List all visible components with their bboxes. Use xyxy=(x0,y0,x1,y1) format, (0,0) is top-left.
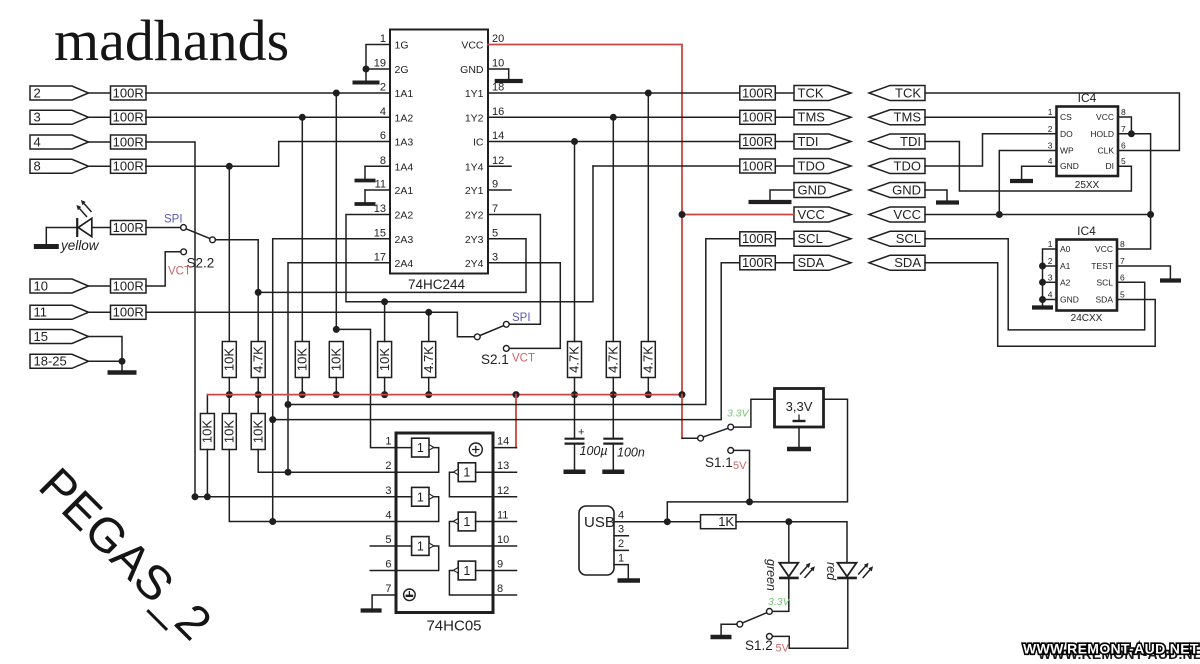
wire U2 pin 12 stub xyxy=(493,496,517,498)
svg-text:TMS: TMS xyxy=(894,110,922,125)
wire 1Y2 to TMS resistor xyxy=(488,116,740,118)
svg-text:14: 14 xyxy=(497,436,509,448)
svg-text:74HC244: 74HC244 xyxy=(408,277,466,292)
svg-text:4: 4 xyxy=(1048,290,1053,300)
wire U2 pin6 stub xyxy=(370,570,396,572)
svg-text:S1.2: S1.2 xyxy=(745,638,773,653)
capacitor C1 100u xyxy=(574,395,576,438)
svg-text:GND: GND xyxy=(1060,161,1079,171)
svg-text:9: 9 xyxy=(492,179,498,191)
wire 25XX GND stub xyxy=(1022,166,1057,179)
svg-text:5: 5 xyxy=(1120,290,1125,300)
wire resistor to flag xyxy=(775,92,794,94)
svg-text:10: 10 xyxy=(34,278,48,293)
svg-text:A1: A1 xyxy=(1060,261,1071,271)
wire 1A2 row (from pin3 flag) xyxy=(146,116,390,118)
svg-text:100R: 100R xyxy=(113,220,144,235)
net flag TMS (in) xyxy=(869,110,925,125)
svg-text:1Y4: 1Y4 xyxy=(465,161,484,173)
wire flag to resistor xyxy=(89,116,111,118)
wire GND pin10 stub xyxy=(488,68,509,70)
svg-text:1A3: 1A3 xyxy=(395,137,414,149)
svg-text:SCL: SCL xyxy=(798,231,823,246)
wire pullup bus (flag8 net) xyxy=(228,166,230,341)
junction WP tap xyxy=(996,211,1003,218)
resistor 4.7K pull (TCK net) xyxy=(641,342,655,378)
ground (GND flag left) xyxy=(749,200,792,204)
wire green LED to S1.2 3.3V contact xyxy=(772,578,789,612)
net flag SCL (in) xyxy=(869,231,925,246)
wire TMS to 25XX CS xyxy=(925,116,1057,118)
U2 ground symbol xyxy=(404,589,416,601)
svg-text:3: 3 xyxy=(1048,272,1053,282)
junction VCC/HOLD xyxy=(1128,130,1135,137)
connector pin flag 15 xyxy=(30,330,89,344)
svg-text:madhands: madhands xyxy=(54,8,289,73)
ground (1A4) xyxy=(364,166,366,180)
IC IC4 24CXX body xyxy=(1057,240,1118,311)
ground (C2) xyxy=(602,470,624,475)
svg-text:1A2: 1A2 xyxy=(395,112,414,124)
svg-text:SDA: SDA xyxy=(1096,295,1114,305)
wire VCC to S1.1 (red) xyxy=(681,395,683,439)
wire SCL to 24CXX SCL xyxy=(925,239,1145,330)
net flag TDI (in) xyxy=(869,134,925,149)
svg-text:2: 2 xyxy=(618,538,624,550)
resistor 4.7K pull (flag11 net) xyxy=(422,342,436,378)
junction on VCC rail xyxy=(610,391,617,398)
svg-text:1: 1 xyxy=(463,466,470,480)
ground (pins 15,18-25) xyxy=(121,361,123,372)
svg-text:TDO: TDO xyxy=(798,158,825,173)
wire 1Y4 stub xyxy=(488,165,511,167)
node junction S2.2/2Y3 xyxy=(255,289,262,296)
svg-text:SPI: SPI xyxy=(164,214,183,226)
svg-text:8: 8 xyxy=(497,583,503,595)
wire U2 pin 13 stub xyxy=(493,471,517,473)
svg-text:6: 6 xyxy=(380,130,386,142)
wire pin4-flag down bus xyxy=(146,142,195,497)
svg-text:1: 1 xyxy=(463,515,470,529)
svg-text:+: + xyxy=(578,427,584,439)
svg-text:2Y1: 2Y1 xyxy=(465,185,484,197)
resistor 10K pull (flag2 net) xyxy=(329,342,343,378)
svg-text:100µ: 100µ xyxy=(580,444,608,458)
wire 1Y1 to TCK resistor xyxy=(488,92,740,94)
wire 1A1 row (from pin2 flag) xyxy=(146,92,390,94)
wire 25XX VCC tie to HOLD xyxy=(1118,117,1131,134)
svg-text:DI: DI xyxy=(1106,161,1115,171)
ground (24CXX) xyxy=(1032,305,1053,309)
svg-text:10K: 10K xyxy=(295,348,310,371)
svg-text:100R: 100R xyxy=(742,85,773,100)
svg-text:2Y4: 2Y4 xyxy=(465,258,484,270)
junction xyxy=(119,358,126,365)
svg-text:3.3V: 3.3V xyxy=(727,408,750,420)
svg-text:10K: 10K xyxy=(222,420,237,443)
resistor 100R (pin 3) xyxy=(111,110,147,124)
switch S1.2 common xyxy=(737,621,743,627)
regulator 3.3V body xyxy=(775,389,824,428)
wire 1A4 ground stub xyxy=(365,165,390,167)
U2 power symbol xyxy=(469,443,482,456)
junction SCL line xyxy=(285,401,292,408)
junction on VCC rail xyxy=(645,391,652,398)
svg-text:100R: 100R xyxy=(113,85,144,100)
wire 24CXX address pins to ground xyxy=(1043,249,1057,305)
svg-text:5: 5 xyxy=(1121,156,1126,166)
svg-text:100R: 100R xyxy=(742,255,773,270)
switch S2.1 VCT contact xyxy=(503,346,509,352)
svg-text:11: 11 xyxy=(375,179,386,191)
svg-text:10K: 10K xyxy=(377,348,392,371)
svg-text:4: 4 xyxy=(1048,156,1053,166)
svg-text:4: 4 xyxy=(385,510,391,522)
svg-text:1: 1 xyxy=(417,540,424,554)
connector pin flag 8 xyxy=(30,159,89,173)
connector pin flag 2 xyxy=(30,86,89,100)
svg-text:13: 13 xyxy=(374,203,386,215)
svg-text:1: 1 xyxy=(463,564,470,578)
svg-text:GND: GND xyxy=(892,182,921,197)
junction on VCC rail xyxy=(333,391,340,398)
resistor 100R (TDI) xyxy=(740,135,776,149)
wire S2.2 common down xyxy=(215,240,258,342)
wire IC pin14 to TDI resistor xyxy=(488,141,740,143)
svg-text:IC4: IC4 xyxy=(1077,224,1096,238)
svg-text:100R: 100R xyxy=(113,134,144,149)
svg-text:4.7K: 4.7K xyxy=(421,346,436,373)
resistor 100R (pin 4) xyxy=(111,135,147,149)
junction HC05 pin4 row xyxy=(269,518,276,525)
net flag TDO (in) xyxy=(869,159,925,174)
switch S1.1 common xyxy=(698,435,704,441)
junction flag4/HC05 pin3 xyxy=(192,493,199,500)
resistor 100R (TDO) xyxy=(740,159,776,173)
svg-text:3.3V: 3.3V xyxy=(768,596,791,608)
wire xyxy=(89,285,111,287)
ground (1G,2G) xyxy=(365,69,367,83)
wire flag3 bus down xyxy=(301,117,303,341)
svg-text:A2: A2 xyxy=(1060,277,1071,287)
svg-text:7: 7 xyxy=(1121,124,1126,134)
svg-text:4.7K: 4.7K xyxy=(641,346,656,373)
switch S1.1 5V contact xyxy=(728,448,734,454)
svg-text:25XX: 25XX xyxy=(1075,180,1100,191)
svg-text:10K: 10K xyxy=(329,348,344,371)
junction flag8/pullup xyxy=(226,163,233,170)
svg-text:74HC05: 74HC05 xyxy=(426,618,481,635)
wire S1.2 common to ground xyxy=(721,624,737,635)
IC U2 74HC05 body xyxy=(396,433,493,613)
svg-text:3: 3 xyxy=(1048,141,1053,151)
wire 2A4 down bus xyxy=(288,263,390,472)
resistor 4.7K pull (S2.2 net) xyxy=(251,342,265,378)
IC U1 74HC244 body xyxy=(390,30,488,274)
wire LED to resistor xyxy=(92,227,111,229)
svg-text:1: 1 xyxy=(1048,107,1053,117)
svg-text:3: 3 xyxy=(34,110,41,125)
wire flag2 bus down with jog to HC05 pin1 xyxy=(335,93,337,329)
svg-text:2A1: 2A1 xyxy=(395,185,414,197)
svg-text:10: 10 xyxy=(492,58,504,70)
svg-text:10: 10 xyxy=(497,534,509,546)
svg-text:100R: 100R xyxy=(113,305,144,320)
svg-text:4.7K: 4.7K xyxy=(567,346,582,373)
inverter gate (input row 521.5, right) xyxy=(449,512,493,546)
wire pin11-flag row (line C) to S2.1 common xyxy=(146,312,474,337)
wire pin18-25 xyxy=(89,360,123,362)
LED D2 green xyxy=(779,563,815,578)
junction TMS pullup xyxy=(610,114,617,121)
net flag TCK (in) xyxy=(869,86,925,101)
svg-text:11: 11 xyxy=(497,510,508,522)
svg-text:VCT: VCT xyxy=(168,266,191,278)
switch S2.1 lever xyxy=(480,326,504,336)
svg-text:2: 2 xyxy=(34,85,41,100)
wire 25XX HOLD to VCC net xyxy=(1117,134,1151,249)
wire pullup vertical (TCK net) xyxy=(647,93,649,342)
VCC rail (red) xyxy=(207,394,682,396)
wire SDA link (2A3 net to SDA resistor) xyxy=(273,263,740,420)
wire resistor to flag xyxy=(775,116,794,118)
wire U2 pin7 to ground xyxy=(372,595,396,609)
svg-text:IC4: IC4 xyxy=(1078,91,1097,105)
inverter gate (input row 546) xyxy=(396,537,439,571)
wire ground to LED xyxy=(46,227,77,229)
wire resistor to VCC rail xyxy=(612,378,614,395)
ground (regulator) xyxy=(798,427,800,447)
wire VCT resistor to S2.2 xyxy=(146,252,181,286)
switch S1.1 3.3V contact xyxy=(728,424,734,430)
svg-text:2Y3: 2Y3 xyxy=(465,234,484,246)
svg-text:S2.1: S2.1 xyxy=(481,352,509,367)
junction jog/pullup xyxy=(333,326,340,333)
junction 1G/2G xyxy=(363,66,370,73)
wire pulldown stub (TDO net) xyxy=(384,302,386,342)
wire 2Y3 to S2.2 net (line A) xyxy=(258,239,526,293)
resistor 10K (HC05 pin2 net) xyxy=(251,414,265,450)
svg-text:9: 9 xyxy=(497,559,503,571)
switch S1.2 5V contact xyxy=(767,634,773,640)
svg-text:TEST: TEST xyxy=(1091,261,1113,271)
svg-text:A0: A0 xyxy=(1060,244,1071,254)
connector pin flag 18-25 xyxy=(30,354,89,368)
wire VCC pin20 (red) xyxy=(488,45,682,395)
wire flag to resistor xyxy=(89,92,111,94)
ground (U2 pin7) xyxy=(361,608,382,612)
junction VCC rail / branch to HC05 pin14 xyxy=(513,391,520,398)
svg-text:16: 16 xyxy=(492,106,504,118)
resistor 100R (pin 11) xyxy=(111,305,147,319)
svg-text:1: 1 xyxy=(618,553,624,565)
resistor 4.7K pull (TMS net) xyxy=(606,342,620,378)
wire 24CXX TEST to ground xyxy=(1117,266,1170,279)
junction 1A1/pullup xyxy=(333,90,340,97)
wire resistor to HC05 pin3 row xyxy=(206,450,208,497)
resistor 100R (SDA) xyxy=(740,256,776,270)
svg-text:8: 8 xyxy=(1121,107,1126,117)
svg-text:18-25: 18-25 xyxy=(34,354,67,369)
svg-text:2: 2 xyxy=(1048,124,1053,134)
connector pin flag 10 xyxy=(30,279,89,293)
svg-text:SCL: SCL xyxy=(1096,277,1113,287)
svg-text:1: 1 xyxy=(385,436,391,448)
wire resistor to flag xyxy=(775,238,794,240)
net flag SCL (out) xyxy=(794,231,851,246)
svg-text:yellow: yellow xyxy=(60,238,100,253)
svg-text:10K: 10K xyxy=(250,420,265,443)
svg-text:5: 5 xyxy=(492,227,498,239)
wire resistor to VCC rail xyxy=(647,378,649,395)
ground (2A1) xyxy=(364,190,366,204)
resistor 100R (yellow LED) xyxy=(111,221,147,235)
ground (yellow LED) xyxy=(45,228,47,247)
svg-text:WWW.REMONT-AUD.NET: WWW.REMONT-AUD.NET xyxy=(1023,641,1199,657)
svg-text:GND: GND xyxy=(798,182,827,197)
svg-text:100R: 100R xyxy=(113,278,144,293)
resistor 10K (HC05 pin4 net) xyxy=(222,414,236,450)
wire TCK to 25XX CLK xyxy=(925,93,1179,151)
connector pin flag 11 xyxy=(30,305,89,319)
svg-text:100R: 100R xyxy=(742,231,773,246)
junction TCK pullup xyxy=(645,90,652,97)
svg-text:7: 7 xyxy=(385,583,391,595)
svg-text:CS: CS xyxy=(1060,112,1072,122)
resistor 100R (pin 8) xyxy=(111,159,147,173)
svg-text:7: 7 xyxy=(492,203,498,215)
svg-text:3: 3 xyxy=(492,251,498,263)
svg-text:SDA: SDA xyxy=(894,255,921,270)
svg-text:11: 11 xyxy=(34,305,48,320)
svg-text:2A3: 2A3 xyxy=(395,234,414,246)
svg-text:VCC: VCC xyxy=(894,207,921,222)
junction VCC vertical xyxy=(679,211,686,218)
svg-text:TCK: TCK xyxy=(895,85,921,100)
wire U2 pin5 stub xyxy=(370,545,396,547)
svg-text:2: 2 xyxy=(380,82,386,94)
junction line C pulldown xyxy=(425,309,432,316)
wire 2Y2 to S2.1 SPI contact xyxy=(488,215,540,325)
svg-text:GND: GND xyxy=(1060,295,1079,305)
wire resistor to HC05 pin2 row xyxy=(258,450,396,473)
svg-text:TDI: TDI xyxy=(798,134,819,149)
resistor 100R (pin 2) xyxy=(111,86,147,100)
net flag VCC (in) xyxy=(869,207,925,222)
svg-text:USB: USB xyxy=(584,514,615,531)
wire S1.1 5V contact down xyxy=(734,450,750,502)
wire resistor to VCC rail xyxy=(335,378,337,395)
svg-text:19: 19 xyxy=(374,58,386,70)
resistor 10K pull (flag3 net) xyxy=(295,342,309,378)
switch S1.2 lever xyxy=(742,613,766,623)
wire rail to lower resistor 3 xyxy=(257,395,259,414)
wire rail end to lower resistor xyxy=(206,395,208,414)
wire 1K to LEDs xyxy=(736,522,847,563)
wire TDO row to resistor xyxy=(593,165,740,167)
switch S2.2 SPI contact xyxy=(181,225,187,231)
svg-text:2A4: 2A4 xyxy=(395,258,414,270)
svg-text:1: 1 xyxy=(417,441,424,455)
svg-text:DO: DO xyxy=(1060,129,1073,139)
wire resistor to VCC rail xyxy=(257,378,259,395)
wire resistor to HC05 pin4 row xyxy=(229,450,396,522)
svg-text:TDI: TDI xyxy=(900,134,921,149)
svg-text:14: 14 xyxy=(492,130,504,142)
junction 5V line xyxy=(746,498,753,505)
wire resistor to VCC rail xyxy=(301,378,303,395)
svg-text:VCT: VCT xyxy=(512,353,535,365)
junction on VCC rail xyxy=(299,391,306,398)
junction 1A2/pullup xyxy=(299,114,306,121)
net flag TCK (out) xyxy=(794,86,851,101)
switch S2.1 common xyxy=(474,334,480,340)
resistor 4.7K pull (TDI net) xyxy=(568,342,582,378)
ground (GND flag right) xyxy=(936,200,959,204)
svg-text:1G: 1G xyxy=(395,40,409,52)
connector USB body xyxy=(579,506,614,575)
svg-text:2A2: 2A2 xyxy=(395,210,414,222)
svg-text:8: 8 xyxy=(380,155,386,167)
svg-text:6: 6 xyxy=(385,559,391,571)
wire 2A3 down bus xyxy=(273,239,390,522)
junction on VCC rail xyxy=(226,391,233,398)
net flag GND (out) xyxy=(794,183,851,198)
svg-text:100R: 100R xyxy=(742,110,773,125)
svg-text:4: 4 xyxy=(618,510,624,522)
svg-text:WP: WP xyxy=(1060,146,1074,156)
svg-text:20: 20 xyxy=(492,33,504,45)
svg-text:2G: 2G xyxy=(395,64,409,76)
svg-text:1Y2: 1Y2 xyxy=(465,112,484,124)
wire resistor to flag xyxy=(775,165,794,167)
wire GND flag right stub xyxy=(925,190,947,201)
net flag GND (in) xyxy=(869,183,925,198)
junction on VCC rail xyxy=(571,391,578,398)
net flag TDO (out) xyxy=(794,159,851,174)
junction VCC vertical to 24CXX xyxy=(1147,211,1154,218)
wire pullup vertical (TMS net) xyxy=(612,117,614,341)
svg-text:2: 2 xyxy=(385,460,391,472)
svg-text:TCK: TCK xyxy=(798,85,824,100)
net flag TDI (out) xyxy=(794,134,851,149)
svg-text:SCL: SCL xyxy=(896,231,921,246)
resistor 10K pull (flag8 net) xyxy=(222,342,236,378)
wire 2Y1 stub xyxy=(488,189,511,191)
switch S2.1 SPI contact xyxy=(503,321,509,327)
svg-text:18: 18 xyxy=(492,82,504,94)
resistor 10K pull (TDO net) xyxy=(378,342,392,378)
wire green LED top xyxy=(788,522,790,563)
wire pin15 to ground node xyxy=(89,337,123,362)
wire VCC flag to memory VCC xyxy=(925,214,1151,216)
LED D1 yellow xyxy=(76,200,91,237)
inverter gate (input row 447.6) xyxy=(396,438,439,472)
capacitor C2 100n xyxy=(612,395,614,438)
wire U2 pin 9 stub xyxy=(493,570,517,572)
svg-text:6: 6 xyxy=(1121,141,1126,151)
switch S1.2 3.3V contact xyxy=(767,609,773,615)
wire 25XX WP to VCC xyxy=(999,151,1056,215)
wire VCC to S1.1 common xyxy=(682,437,698,439)
svg-text:HOLD: HOLD xyxy=(1090,129,1114,139)
resistor 100R (TMS) xyxy=(740,110,776,124)
svg-text:100R: 100R xyxy=(113,159,144,174)
svg-text:1A1: 1A1 xyxy=(395,88,414,100)
ground (USB) xyxy=(618,578,641,583)
svg-text:5V: 5V xyxy=(733,460,747,472)
wire regulator input (5V) xyxy=(667,399,847,522)
